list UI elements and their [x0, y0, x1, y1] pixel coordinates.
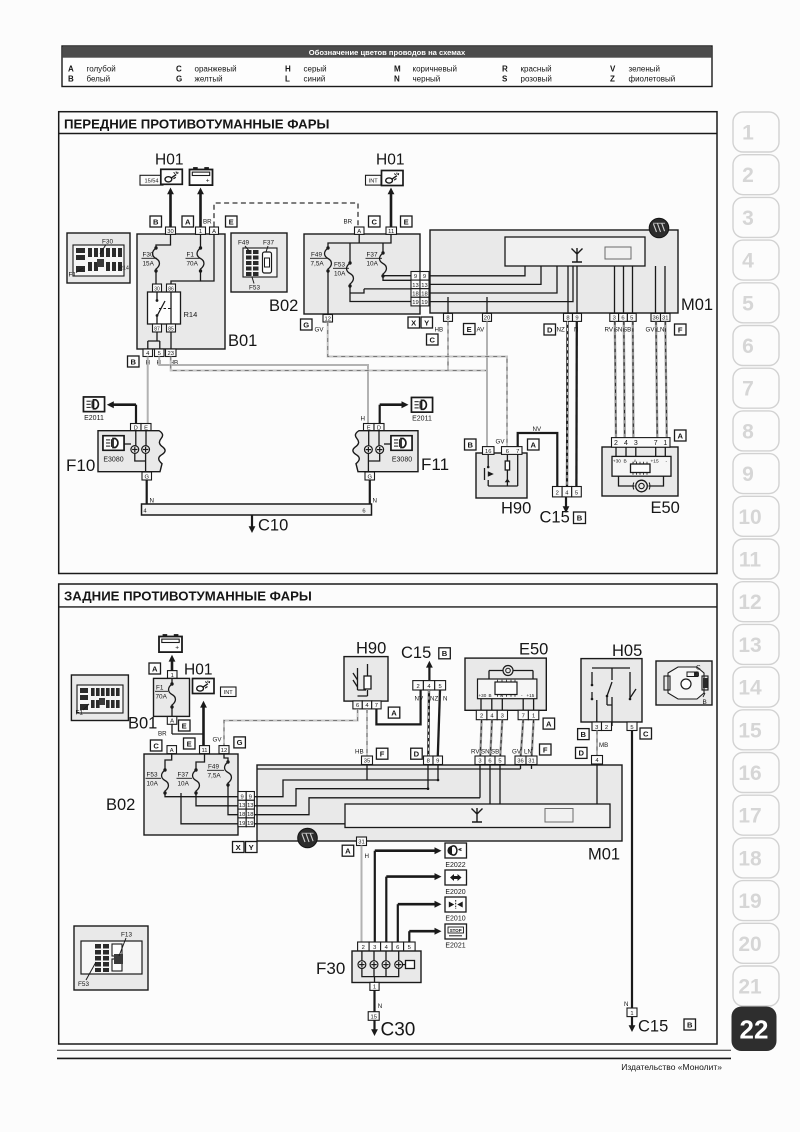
- svg-text:F49: F49: [208, 764, 219, 771]
- svg-text:A: A: [152, 664, 158, 673]
- svg-text:20: 20: [738, 933, 761, 956]
- svg-text:31: 31: [662, 316, 668, 322]
- svg-text:1: 1: [532, 714, 535, 720]
- svg-text:C15: C15: [540, 509, 570, 527]
- svg-text:D: D: [547, 325, 553, 334]
- svg-text:31: 31: [528, 759, 534, 765]
- svg-text:AV: AV: [477, 327, 486, 334]
- svg-text:13: 13: [738, 634, 761, 657]
- svg-text:Обозначение цветов проводов на: Обозначение цветов проводов на схемах: [309, 48, 466, 57]
- svg-text:+30: +30: [479, 693, 487, 698]
- svg-text:красный: красный: [521, 65, 552, 74]
- svg-text:3: 3: [634, 440, 638, 447]
- svg-text:BR: BR: [158, 731, 167, 738]
- svg-text:3: 3: [501, 714, 504, 720]
- svg-text:V: V: [610, 65, 616, 74]
- svg-text:9: 9: [742, 463, 754, 486]
- svg-text:B: B: [703, 699, 707, 706]
- svg-text:GV: GV: [512, 749, 522, 756]
- svg-text:E: E: [229, 217, 234, 226]
- svg-text:F1: F1: [187, 252, 195, 259]
- svg-text:C: C: [153, 741, 159, 750]
- svg-text:GV: GV: [496, 439, 506, 446]
- svg-text:GV: GV: [315, 327, 325, 334]
- svg-text:S: S: [502, 75, 508, 84]
- svg-text:N: N: [394, 75, 400, 84]
- svg-text:15/54: 15/54: [145, 179, 159, 185]
- svg-text:E: E: [467, 325, 472, 334]
- svg-text:A: A: [677, 431, 683, 440]
- svg-text:SN: SN: [481, 749, 490, 756]
- svg-text:F10: F10: [66, 456, 95, 475]
- svg-text:A: A: [546, 719, 552, 728]
- svg-text:RV: RV: [471, 749, 480, 756]
- svg-text:G: G: [237, 738, 243, 747]
- svg-text:3: 3: [613, 316, 616, 322]
- svg-text:F37: F37: [367, 252, 378, 259]
- svg-text:36: 36: [517, 759, 523, 765]
- svg-text:11: 11: [388, 229, 394, 235]
- svg-text:4: 4: [624, 440, 628, 447]
- svg-text:5: 5: [742, 292, 754, 315]
- svg-text:F30: F30: [102, 239, 113, 246]
- svg-text:9: 9: [240, 794, 243, 800]
- svg-text:B: B: [467, 440, 473, 449]
- svg-text:19: 19: [412, 300, 418, 306]
- svg-text:B: B: [442, 649, 448, 658]
- svg-text:A: A: [68, 65, 74, 74]
- svg-text:+30: +30: [613, 459, 621, 465]
- svg-text:19: 19: [421, 300, 427, 306]
- svg-text:13: 13: [412, 283, 418, 289]
- svg-text:G: G: [144, 474, 149, 480]
- svg-text:B02: B02: [106, 796, 135, 814]
- svg-text:5: 5: [438, 684, 441, 690]
- svg-text:17: 17: [738, 805, 761, 828]
- svg-text:6: 6: [396, 945, 399, 951]
- svg-text:E3080: E3080: [392, 457, 412, 464]
- svg-text:C: C: [429, 335, 435, 344]
- svg-text:C: C: [643, 729, 649, 738]
- svg-text:HB: HB: [355, 749, 364, 756]
- svg-text:серый: серый: [304, 65, 327, 74]
- svg-text:H05: H05: [612, 642, 642, 660]
- svg-text:черный: черный: [413, 75, 441, 84]
- svg-text:12: 12: [324, 317, 330, 323]
- svg-text:F: F: [543, 745, 548, 754]
- svg-text:1: 1: [742, 122, 754, 145]
- svg-text:F53: F53: [78, 981, 89, 988]
- svg-text:INT: INT: [224, 690, 234, 696]
- svg-text:B02: B02: [269, 297, 298, 315]
- svg-text:E3080: E3080: [103, 457, 123, 464]
- svg-text:N: N: [373, 498, 377, 505]
- svg-text:STOP: STOP: [450, 928, 462, 933]
- svg-text:C15: C15: [638, 1018, 668, 1036]
- svg-text:C30: C30: [381, 1020, 416, 1041]
- svg-text:A: A: [391, 708, 397, 717]
- svg-text:розовый: розовый: [521, 75, 552, 84]
- svg-text:70A: 70A: [156, 694, 168, 701]
- svg-text:19: 19: [738, 890, 761, 913]
- svg-text:NV: NV: [415, 696, 424, 703]
- svg-text:B: B: [489, 693, 492, 698]
- svg-text:E: E: [187, 739, 192, 748]
- svg-text:C: C: [371, 217, 377, 226]
- svg-text:B: B: [624, 459, 627, 465]
- svg-text:18: 18: [239, 812, 245, 818]
- svg-text:13: 13: [239, 803, 245, 809]
- svg-text:NZ: NZ: [430, 696, 438, 703]
- svg-text:MB: MB: [599, 742, 608, 749]
- svg-text:A: A: [170, 748, 174, 754]
- svg-text:7: 7: [516, 449, 519, 455]
- svg-text:E2020: E2020: [445, 889, 465, 896]
- svg-text:ЗАДНИЕ ПРОТИВОТУМАННЫЕ ФАРЫ: ЗАДНИЕ ПРОТИВОТУМАННЫЕ ФАРЫ: [64, 589, 312, 604]
- svg-text:8: 8: [566, 316, 569, 322]
- svg-text:Z: Z: [610, 75, 615, 84]
- svg-text:7,5A: 7,5A: [311, 261, 325, 268]
- svg-text:6: 6: [621, 316, 624, 322]
- svg-text:7: 7: [654, 440, 658, 447]
- svg-text:+15: +15: [527, 693, 535, 698]
- svg-text:2: 2: [556, 490, 559, 496]
- svg-text:RV: RV: [605, 327, 614, 334]
- svg-text:15: 15: [370, 1015, 376, 1021]
- svg-text:NV: NV: [533, 426, 542, 433]
- svg-text:F37: F37: [263, 240, 274, 247]
- svg-text:15: 15: [738, 719, 762, 742]
- svg-text:A: A: [185, 217, 191, 226]
- svg-text:A: A: [530, 440, 536, 449]
- svg-text:E50: E50: [651, 499, 680, 517]
- svg-text:12: 12: [221, 748, 227, 754]
- svg-text:F1: F1: [156, 685, 164, 692]
- svg-text:H: H: [285, 65, 291, 74]
- svg-text:10A: 10A: [334, 271, 346, 278]
- svg-text:14: 14: [738, 677, 762, 700]
- svg-text:F30: F30: [143, 252, 154, 259]
- svg-text:70A: 70A: [187, 261, 199, 268]
- svg-text:5: 5: [630, 316, 633, 322]
- svg-text:HB: HB: [435, 327, 444, 334]
- svg-text:2: 2: [416, 684, 419, 690]
- svg-text:7,5A: 7,5A: [208, 773, 222, 780]
- svg-text:6: 6: [742, 335, 754, 358]
- svg-text:BR: BR: [344, 219, 353, 226]
- svg-text:16: 16: [738, 762, 761, 785]
- svg-text:E: E: [182, 721, 187, 730]
- svg-text:D: D: [578, 749, 584, 758]
- svg-text:F: F: [380, 750, 385, 759]
- svg-text:9: 9: [249, 794, 252, 800]
- svg-text:87: 87: [154, 326, 160, 332]
- svg-text:7: 7: [522, 714, 525, 720]
- svg-text:синий: синий: [304, 75, 326, 84]
- svg-text:H: H: [361, 416, 365, 423]
- svg-text:желтый: желтый: [195, 75, 223, 84]
- svg-text:9: 9: [575, 316, 578, 322]
- svg-text:F: F: [678, 325, 683, 334]
- svg-text:21: 21: [738, 976, 762, 999]
- svg-text:F1: F1: [76, 710, 84, 717]
- svg-text:ПЕРЕДНИЕ ПРОТИВОТУМАННЫЕ ФАРЫ: ПЕРЕДНИЕ ПРОТИВОТУМАННЫЕ ФАРЫ: [64, 117, 329, 132]
- svg-text:18: 18: [412, 291, 418, 297]
- svg-text:X: X: [236, 843, 241, 852]
- svg-text:9: 9: [423, 274, 426, 280]
- svg-text:M01: M01: [588, 846, 620, 864]
- svg-text:F1: F1: [69, 272, 77, 279]
- svg-text:F53: F53: [147, 772, 158, 779]
- svg-text:3: 3: [373, 945, 376, 951]
- svg-text:8: 8: [427, 759, 430, 765]
- svg-text:M01: M01: [681, 296, 713, 314]
- svg-text:31: 31: [358, 840, 364, 846]
- svg-text:13: 13: [247, 803, 253, 809]
- svg-text:3: 3: [595, 725, 598, 731]
- svg-text:36: 36: [652, 316, 658, 322]
- svg-text:F11: F11: [421, 455, 449, 474]
- svg-text:Издательство «Монолит»: Издательство «Монолит»: [621, 1062, 722, 1072]
- svg-text:E2022: E2022: [445, 862, 465, 869]
- svg-text:C: C: [176, 65, 182, 74]
- svg-text:10A: 10A: [147, 781, 159, 788]
- svg-text:B: B: [581, 730, 587, 739]
- svg-text:H01: H01: [376, 152, 404, 169]
- svg-text:A: A: [357, 229, 361, 235]
- svg-text:E50: E50: [519, 641, 548, 659]
- svg-text:F30: F30: [316, 959, 345, 978]
- svg-text:10A: 10A: [367, 261, 379, 268]
- svg-text:7: 7: [375, 703, 378, 709]
- svg-text:2: 2: [362, 945, 365, 951]
- svg-text:5: 5: [498, 759, 501, 765]
- svg-text:B: B: [130, 357, 136, 366]
- svg-text:8: 8: [742, 420, 754, 443]
- svg-text:голубой: голубой: [87, 65, 116, 74]
- svg-text:SB: SB: [491, 749, 499, 756]
- svg-text:B: B: [577, 514, 583, 523]
- svg-text:18: 18: [421, 291, 427, 297]
- svg-text:INT: INT: [369, 179, 379, 185]
- svg-text:R14: R14: [184, 310, 198, 319]
- svg-text:H: H: [365, 853, 369, 860]
- svg-text:19: 19: [247, 821, 253, 827]
- svg-text:C: C: [696, 665, 701, 672]
- svg-text:B: B: [687, 1020, 693, 1029]
- svg-text:30: 30: [167, 229, 173, 235]
- svg-text:9: 9: [436, 759, 439, 765]
- svg-text:11: 11: [201, 748, 207, 754]
- svg-text:N: N: [443, 696, 447, 703]
- svg-text:A: A: [345, 847, 351, 856]
- svg-text:зеленый: зеленый: [629, 65, 661, 74]
- svg-text:LN: LN: [657, 327, 665, 334]
- svg-text:F37: F37: [178, 772, 189, 779]
- svg-text:18: 18: [738, 847, 762, 870]
- svg-text:E2011: E2011: [412, 416, 432, 423]
- svg-text:белый: белый: [87, 75, 111, 84]
- svg-text:N: N: [624, 1001, 628, 1008]
- svg-text:5: 5: [158, 351, 161, 357]
- svg-text:C10: C10: [258, 517, 288, 535]
- svg-text:22: 22: [740, 1015, 769, 1045]
- svg-text:19: 19: [239, 821, 245, 827]
- svg-text:B01: B01: [228, 332, 257, 350]
- svg-text:F53: F53: [249, 285, 260, 292]
- svg-text:7: 7: [742, 378, 754, 401]
- svg-text:BR: BR: [203, 219, 212, 226]
- svg-text:6: 6: [488, 759, 491, 765]
- svg-text:2: 2: [480, 714, 483, 720]
- svg-text:16: 16: [485, 449, 491, 455]
- svg-text:оранжевый: оранжевый: [195, 65, 237, 74]
- svg-text:+15: +15: [651, 459, 659, 465]
- svg-text:8: 8: [446, 316, 449, 322]
- svg-text:F49: F49: [311, 252, 322, 259]
- svg-text:1: 1: [373, 985, 376, 991]
- svg-text:H90: H90: [356, 640, 386, 658]
- svg-text:11: 11: [739, 549, 762, 572]
- svg-text:G: G: [367, 474, 372, 480]
- svg-text:3: 3: [478, 759, 481, 765]
- svg-text:1: 1: [199, 229, 202, 235]
- svg-text:C15: C15: [401, 644, 431, 662]
- svg-text:B: B: [68, 75, 74, 84]
- svg-text:A: A: [170, 719, 174, 725]
- svg-text:H01: H01: [184, 662, 212, 679]
- svg-text:F53: F53: [334, 262, 345, 269]
- svg-text:коричневый: коричневый: [413, 65, 457, 74]
- svg-text:6: 6: [362, 509, 365, 515]
- svg-text:R14: R14: [119, 266, 129, 272]
- svg-text:10: 10: [738, 506, 761, 529]
- svg-text:E2010: E2010: [445, 916, 465, 923]
- svg-text:L: L: [285, 75, 290, 84]
- svg-text:B: B: [153, 217, 159, 226]
- svg-text:5: 5: [408, 945, 411, 951]
- svg-text:1: 1: [630, 1011, 633, 1017]
- svg-text:E2011: E2011: [84, 415, 104, 422]
- svg-text:B01: B01: [128, 715, 157, 733]
- svg-text:5: 5: [630, 725, 633, 731]
- svg-text:G: G: [176, 75, 182, 84]
- svg-text:M: M: [394, 65, 401, 74]
- svg-text:2: 2: [614, 440, 618, 447]
- svg-text:3: 3: [742, 207, 754, 230]
- svg-text:F49: F49: [238, 240, 249, 247]
- svg-text:5: 5: [575, 490, 578, 496]
- svg-text:R: R: [502, 65, 508, 74]
- svg-text:E2021: E2021: [445, 943, 465, 950]
- svg-text:20: 20: [484, 316, 490, 322]
- svg-text:23: 23: [167, 351, 173, 357]
- svg-text:2: 2: [742, 164, 754, 187]
- svg-text:NZ: NZ: [557, 327, 565, 334]
- svg-text:6: 6: [506, 449, 509, 455]
- svg-text:15A: 15A: [143, 261, 155, 268]
- svg-text:F13: F13: [121, 932, 132, 939]
- svg-text:85: 85: [168, 326, 174, 332]
- svg-text:H01: H01: [155, 152, 183, 169]
- svg-text:GV: GV: [646, 327, 656, 334]
- svg-text:9: 9: [414, 274, 417, 280]
- svg-text:6: 6: [356, 703, 359, 709]
- svg-text:фиолетовый: фиолетовый: [629, 75, 676, 84]
- svg-text:1: 1: [663, 440, 667, 447]
- svg-text:Y: Y: [424, 318, 429, 327]
- svg-text:LN: LN: [524, 749, 532, 756]
- svg-text:13: 13: [421, 283, 427, 289]
- svg-text:A: A: [212, 229, 216, 235]
- svg-text:N: N: [378, 1003, 382, 1010]
- svg-text:2: 2: [605, 725, 608, 731]
- svg-text:10A: 10A: [178, 781, 190, 788]
- svg-text:35: 35: [364, 759, 370, 765]
- svg-text:18: 18: [247, 812, 253, 818]
- svg-text:4: 4: [742, 250, 754, 273]
- svg-text:G: G: [303, 320, 309, 329]
- svg-text:D: D: [414, 750, 420, 759]
- svg-text:E: E: [404, 217, 409, 226]
- svg-text:12: 12: [738, 591, 761, 614]
- svg-text:H90: H90: [501, 500, 531, 518]
- svg-text:Y: Y: [249, 843, 254, 852]
- svg-text:GV: GV: [213, 737, 223, 744]
- svg-text:X: X: [411, 318, 416, 327]
